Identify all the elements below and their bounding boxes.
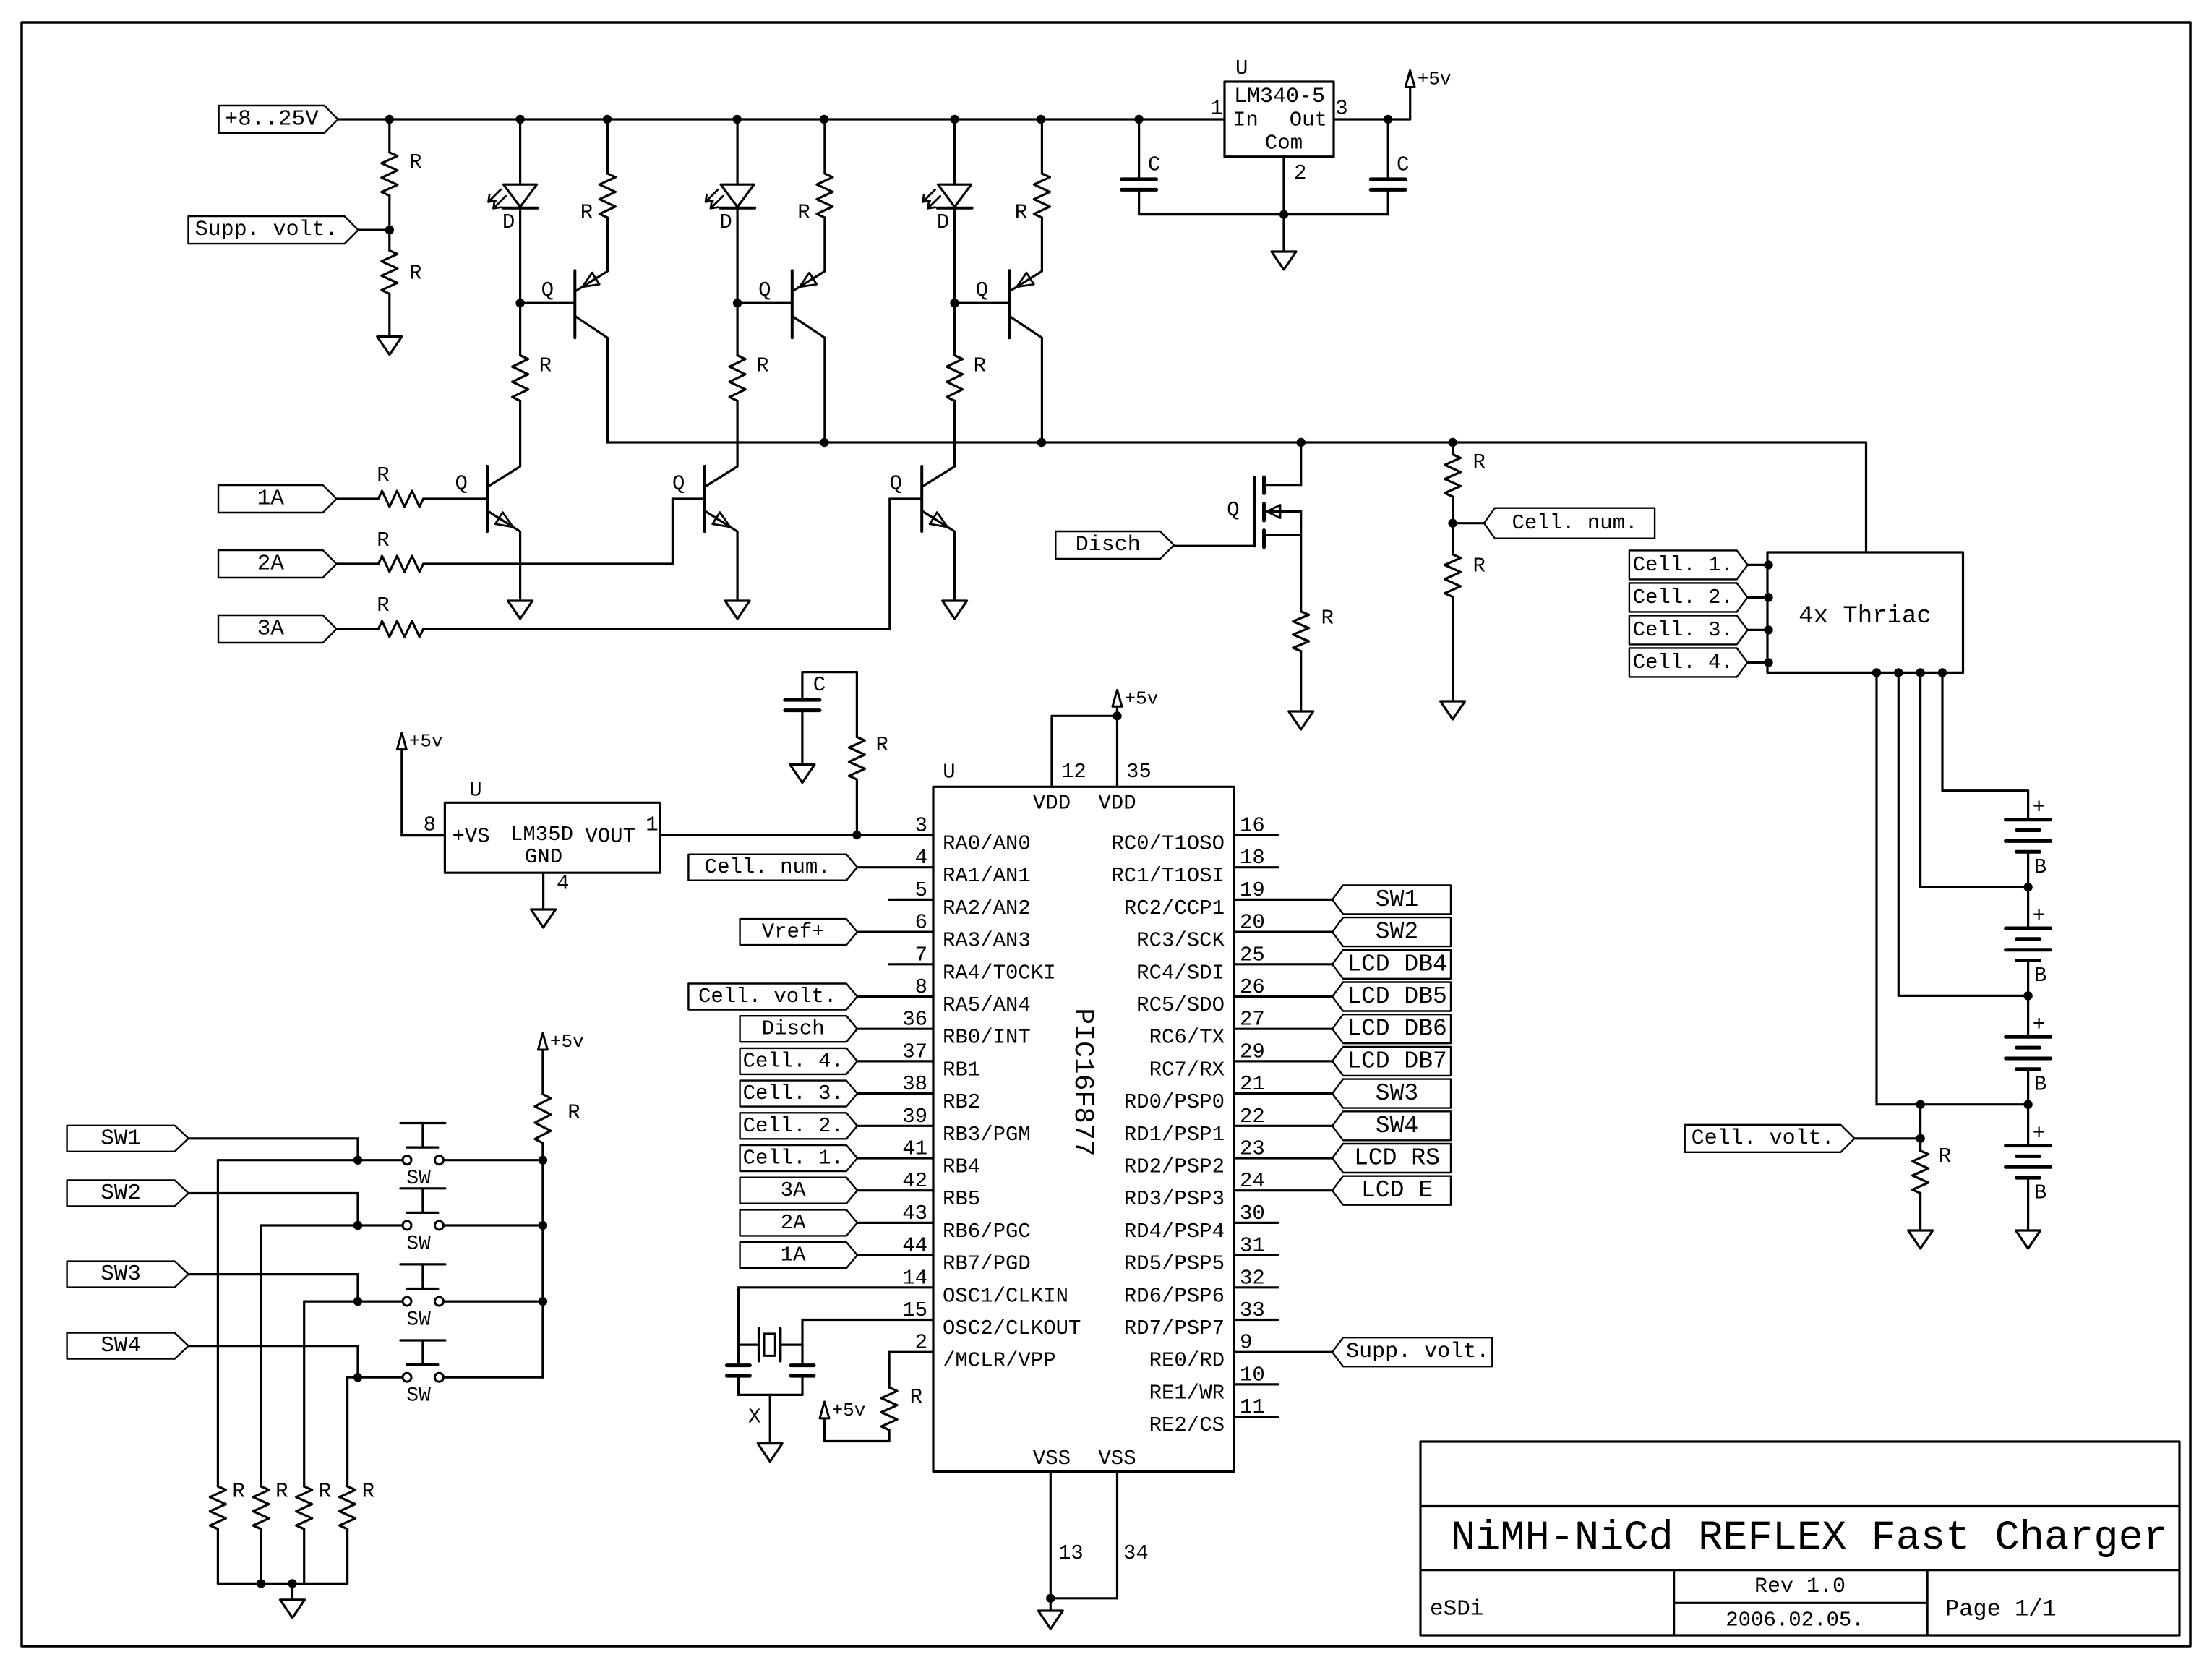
svg-text:34: 34 xyxy=(1123,1541,1149,1565)
svg-text:Q: Q xyxy=(758,278,771,302)
svg-text:RD5/PSP5: RD5/PSP5 xyxy=(1124,1252,1225,1276)
svg-text:RB2: RB2 xyxy=(943,1090,980,1114)
svg-text:2006.02.05.: 2006.02.05. xyxy=(1726,1609,1864,1632)
svg-text:R: R xyxy=(797,201,810,225)
svg-text:U: U xyxy=(1235,56,1248,80)
svg-text:+: + xyxy=(2033,1121,2046,1146)
svg-text:Cell. volt.: Cell. volt. xyxy=(1692,1126,1835,1151)
svg-text:+: + xyxy=(2033,1013,2046,1037)
svg-text:In: In xyxy=(1233,108,1259,132)
svg-text:SW3: SW3 xyxy=(1376,1080,1418,1107)
svg-text:Supp. volt.: Supp. volt. xyxy=(195,218,338,242)
svg-text:3: 3 xyxy=(1335,97,1347,121)
svg-text:GND: GND xyxy=(525,845,562,869)
svg-text:R: R xyxy=(377,594,389,617)
svg-text:RB0/INT: RB0/INT xyxy=(943,1026,1031,1050)
svg-text:R: R xyxy=(1015,201,1027,225)
svg-text:LCD DB5: LCD DB5 xyxy=(1347,983,1447,1010)
svg-text:R: R xyxy=(974,354,986,378)
svg-text:Disch: Disch xyxy=(1076,533,1141,557)
svg-text:LM340-5: LM340-5 xyxy=(1234,85,1325,109)
svg-text:Out: Out xyxy=(1290,108,1327,132)
svg-text:2: 2 xyxy=(1294,161,1306,185)
svg-text:RC7/RX: RC7/RX xyxy=(1149,1058,1225,1082)
svg-text:SW: SW xyxy=(406,1168,431,1190)
svg-text:RE2/CS: RE2/CS xyxy=(1149,1413,1225,1437)
svg-text:RC1/T1OSI: RC1/T1OSI xyxy=(1111,864,1225,888)
svg-text:LM35D: LM35D xyxy=(510,823,573,847)
svg-text:RB3/PGM: RB3/PGM xyxy=(943,1123,1031,1147)
svg-text:R: R xyxy=(377,463,389,487)
svg-text:+: + xyxy=(2033,795,2046,820)
svg-text:RD4/PSP4: RD4/PSP4 xyxy=(1124,1220,1225,1243)
svg-text:SW1: SW1 xyxy=(100,1126,141,1151)
svg-text:+5v: +5v xyxy=(409,731,443,753)
svg-text:RC3/SCK: RC3/SCK xyxy=(1136,929,1225,953)
svg-text:1: 1 xyxy=(1210,97,1222,121)
svg-text:SW2: SW2 xyxy=(1376,919,1418,946)
svg-text:8: 8 xyxy=(424,813,436,837)
svg-text:12: 12 xyxy=(1061,760,1086,784)
svg-text:RC6/TX: RC6/TX xyxy=(1149,1026,1225,1050)
svg-text:RD0/PSP0: RD0/PSP0 xyxy=(1124,1090,1225,1114)
svg-text:R: R xyxy=(1473,554,1486,578)
svg-text:RB1: RB1 xyxy=(943,1058,980,1082)
svg-text:R: R xyxy=(1939,1144,1951,1168)
svg-text:LCD E: LCD E xyxy=(1361,1177,1433,1204)
svg-text:OSC2/CLKOUT: OSC2/CLKOUT xyxy=(943,1316,1081,1340)
svg-text:LCD RS: LCD RS xyxy=(1354,1145,1440,1172)
svg-text:RD3/PSP3: RD3/PSP3 xyxy=(1124,1187,1225,1211)
svg-text:Supp. volt.: Supp. volt. xyxy=(1346,1340,1489,1364)
svg-text:SW: SW xyxy=(406,1233,431,1256)
svg-text:Q: Q xyxy=(889,472,901,496)
svg-text:R: R xyxy=(910,1385,922,1409)
svg-text:Q: Q xyxy=(672,472,685,496)
svg-text:RC2/CCP1: RC2/CCP1 xyxy=(1124,896,1225,920)
svg-text:Vref+: Vref+ xyxy=(762,920,825,944)
svg-text:C: C xyxy=(1397,153,1409,177)
svg-text:4: 4 xyxy=(557,872,569,896)
svg-text:RD2/PSP2: RD2/PSP2 xyxy=(1124,1155,1225,1179)
svg-text:LCD DB6: LCD DB6 xyxy=(1347,1016,1447,1042)
svg-text:RE1/WR: RE1/WR xyxy=(1149,1381,1225,1405)
svg-text:1A: 1A xyxy=(781,1243,806,1267)
svg-text:R: R xyxy=(876,733,888,757)
svg-text:OSC1/CLKIN: OSC1/CLKIN xyxy=(943,1284,1068,1308)
svg-text:Cell. 3.: Cell. 3. xyxy=(1633,618,1733,642)
svg-text:RA2/AN2: RA2/AN2 xyxy=(943,896,1031,920)
svg-text:+5v: +5v xyxy=(550,1031,584,1053)
svg-text:RB7/PGD: RB7/PGD xyxy=(943,1252,1031,1276)
svg-text:2A: 2A xyxy=(257,552,285,577)
svg-text:1A: 1A xyxy=(257,487,285,512)
svg-text:R: R xyxy=(756,354,768,378)
svg-text:Cell. 1.: Cell. 1. xyxy=(1633,553,1733,577)
svg-text:R: R xyxy=(275,1480,288,1504)
svg-text:4x Thriac: 4x Thriac xyxy=(1799,603,1932,630)
svg-text:Q: Q xyxy=(455,472,467,496)
svg-text:3A: 3A xyxy=(257,617,285,642)
svg-text:NiMH-NiCd REFLEX Fast Charger: NiMH-NiCd REFLEX Fast Charger xyxy=(1451,1515,2168,1562)
svg-text:Cell. volt.: Cell. volt. xyxy=(698,985,836,1009)
svg-text:SW1: SW1 xyxy=(1376,886,1418,913)
svg-text:R: R xyxy=(1321,606,1334,630)
svg-text:R: R xyxy=(409,150,421,174)
svg-text:RB4: RB4 xyxy=(943,1155,980,1179)
svg-text:RB5: RB5 xyxy=(943,1187,980,1211)
svg-text:RC0/T1OSO: RC0/T1OSO xyxy=(1111,832,1225,856)
svg-text:+5v: +5v xyxy=(832,1400,866,1421)
svg-text:VOUT: VOUT xyxy=(585,825,635,849)
svg-text:VDD: VDD xyxy=(1033,792,1071,815)
svg-text:RD1/PSP1: RD1/PSP1 xyxy=(1124,1123,1225,1147)
svg-text:LCD DB4: LCD DB4 xyxy=(1347,951,1447,977)
svg-text:C: C xyxy=(813,673,826,697)
svg-text:LCD DB7: LCD DB7 xyxy=(1347,1048,1447,1074)
svg-text:Disch: Disch xyxy=(762,1017,825,1041)
svg-text:RA5/AN4: RA5/AN4 xyxy=(943,993,1031,1017)
svg-text:R: R xyxy=(580,201,593,225)
svg-text:RA3/AN3: RA3/AN3 xyxy=(943,929,1031,953)
svg-text:B: B xyxy=(2034,1181,2046,1205)
svg-text:VSS: VSS xyxy=(1033,1447,1071,1470)
svg-text:Com: Com xyxy=(1265,132,1303,155)
svg-text:U: U xyxy=(469,779,481,802)
svg-text:35: 35 xyxy=(1126,760,1152,784)
svg-text:Q: Q xyxy=(1227,498,1239,522)
svg-text:R: R xyxy=(409,262,421,286)
svg-text:B: B xyxy=(2034,855,2046,879)
svg-text:SW: SW xyxy=(406,1309,431,1332)
svg-text:1: 1 xyxy=(646,813,658,837)
svg-text:B: B xyxy=(2034,964,2046,988)
svg-text:D: D xyxy=(502,210,515,234)
svg-text:R: R xyxy=(377,528,389,552)
svg-text:SW: SW xyxy=(406,1385,431,1408)
svg-text:Cell. 3.: Cell. 3. xyxy=(743,1082,844,1105)
svg-text:SW2: SW2 xyxy=(100,1181,141,1206)
svg-text:R: R xyxy=(539,354,552,378)
svg-text:R: R xyxy=(567,1100,580,1124)
svg-text:Page 1/1: Page 1/1 xyxy=(1945,1596,2057,1623)
svg-text:R: R xyxy=(319,1480,331,1504)
svg-text:VSS: VSS xyxy=(1098,1447,1136,1470)
svg-text:RB6/PGC: RB6/PGC xyxy=(943,1220,1031,1243)
svg-text:RD6/PSP6: RD6/PSP6 xyxy=(1124,1284,1225,1308)
svg-text:PIC16F877: PIC16F877 xyxy=(1067,1008,1098,1156)
svg-text:VDD: VDD xyxy=(1098,792,1136,815)
svg-text:13: 13 xyxy=(1058,1541,1084,1565)
svg-text:R: R xyxy=(232,1480,244,1504)
svg-text:+5v: +5v xyxy=(1418,69,1452,90)
svg-text:Cell. 2.: Cell. 2. xyxy=(1633,586,1733,609)
svg-text:X: X xyxy=(748,1405,760,1429)
svg-text:Q: Q xyxy=(541,278,554,302)
svg-text:Cell. num.: Cell. num. xyxy=(1512,511,1637,535)
svg-text:SW3: SW3 xyxy=(100,1262,141,1287)
svg-text:Cell. 2.: Cell. 2. xyxy=(743,1114,844,1138)
svg-text:RE0/RD: RE0/RD xyxy=(1149,1349,1225,1373)
svg-text:Cell. 1.: Cell. 1. xyxy=(743,1147,844,1170)
svg-text:Cell. 4.: Cell. 4. xyxy=(1633,651,1733,675)
svg-text:RA1/AN1: RA1/AN1 xyxy=(943,864,1031,888)
svg-text:Cell. num.: Cell. num. xyxy=(705,855,831,879)
svg-text:D: D xyxy=(719,210,732,234)
svg-text:R: R xyxy=(362,1480,374,1504)
svg-text:/MCLR/VPP: /MCLR/VPP xyxy=(943,1349,1056,1373)
svg-text:3A: 3A xyxy=(781,1178,806,1202)
svg-text:Cell. 4.: Cell. 4. xyxy=(743,1049,844,1073)
svg-text:D: D xyxy=(937,210,949,234)
svg-text:RC5/SDO: RC5/SDO xyxy=(1136,993,1225,1017)
svg-text:U: U xyxy=(943,761,955,784)
svg-text:+8..25V: +8..25V xyxy=(224,107,319,132)
svg-text:+5v: +5v xyxy=(1125,688,1159,709)
svg-text:2A: 2A xyxy=(781,1211,806,1235)
svg-text:Rev 1.0: Rev 1.0 xyxy=(1754,1575,1846,1599)
svg-text:C: C xyxy=(1148,153,1160,177)
svg-text:eSDi: eSDi xyxy=(1430,1597,1483,1622)
svg-text:SW4: SW4 xyxy=(100,1333,141,1358)
svg-text:RD7/PSP7: RD7/PSP7 xyxy=(1124,1316,1225,1340)
svg-text:RC4/SDI: RC4/SDI xyxy=(1136,961,1225,985)
svg-text:R: R xyxy=(1473,450,1486,474)
svg-text:RA4/T0CKI: RA4/T0CKI xyxy=(943,961,1056,985)
svg-text:Q: Q xyxy=(976,278,988,302)
svg-text:SW4: SW4 xyxy=(1376,1113,1418,1139)
svg-text:+: + xyxy=(2033,904,2046,929)
svg-text:RA0/AN0: RA0/AN0 xyxy=(943,832,1031,856)
svg-text:B: B xyxy=(2034,1072,2046,1096)
svg-text:+VS: +VS xyxy=(453,825,490,849)
